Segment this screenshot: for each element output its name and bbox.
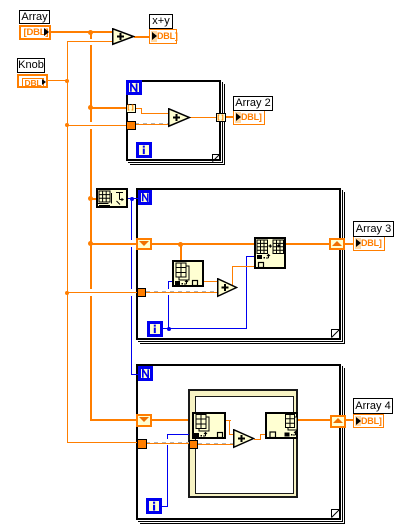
wire: blue N trunk [131, 199, 132, 375]
for loop 1 border [130, 84, 225, 165]
add function 3 (loop2) [217, 278, 238, 298]
loop1 left index tunnel [126, 104, 136, 113]
wire: elbow riser loop3 left [229, 420, 230, 434]
wire: blue riser to replace node loop2 [246, 256, 247, 329]
loop2 N terminal [138, 190, 153, 205]
Array control terminal [19, 25, 51, 40]
wire: loop1 right tunnel to Array 2 [225, 116, 234, 118]
wire: Array terminal to add1 [51, 31, 112, 33]
wire: add2 out top run [232, 266, 255, 267]
junction on array trunk at loop2 branch [88, 241, 93, 246]
loop2 up tunnel [329, 238, 345, 250]
wire: index node out elbow loop3 [226, 420, 231, 421]
wire: knob to add1 lower input [67, 41, 113, 42]
wire: loop1 tunnel to add2 upper [135, 108, 142, 109]
wire crossing gap at array trunk and knob-to-add wire [89, 39, 93, 46]
wire: knob vertical trunk [67, 41, 68, 443]
loop1 scalar tunnel [126, 121, 136, 130]
loop2 down tunnel [136, 238, 152, 250]
wire: knob to loop3 scalar tunnel [67, 442, 138, 443]
add function 1 (top) [112, 28, 135, 46]
loop1 right index tunnel [216, 113, 226, 122]
Array label [19, 10, 50, 24]
for loop 2 border [140, 192, 345, 344]
x+y label [149, 14, 173, 29]
loop2 scalar tunnel [137, 288, 146, 297]
x+y indicator terminal [149, 29, 177, 44]
junction on loop2 array wire at index array branch [178, 242, 183, 247]
for loop 3 border [140, 368, 345, 524]
replace array element node (loop3 right) [265, 412, 298, 439]
for loop 2 folded corner [331, 329, 340, 338]
wire crossing gap at array trunk and loop1 scalar wire [89, 122, 93, 129]
index array node (loop2) [172, 260, 204, 287]
wire: trunk to loop1 index tunnel [91, 107, 127, 109]
wire: blue i riser loop3 [167, 434, 168, 507]
junction on knob trunk at loop2 branch [65, 291, 69, 295]
Array 2 indicator terminal [233, 110, 265, 125]
wire: replace node to loop2 up tunnel [286, 243, 329, 245]
Array 4 indicator terminal [353, 414, 384, 428]
junction on knob trunk at loop1 branch [65, 123, 69, 127]
wire: replace node to loop3 up tunnel [298, 419, 330, 421]
loop2 i terminal [147, 321, 163, 337]
loop3 N terminal [138, 366, 153, 381]
wire: array size to loop2 N (blue) [128, 198, 138, 199]
wire: blue i riser loop2 [168, 281, 169, 329]
wire: loop3 dashed scalar a [146, 443, 189, 444]
wire: trunk to loop3 down tunnel [90, 419, 137, 421]
Array 4 label [353, 398, 393, 414]
junction on knob wire at terminal branch [65, 79, 69, 83]
junction on loop2 blue iteration wire [167, 327, 171, 331]
inner frame scalar tunnel [189, 440, 198, 449]
wire: loop3 dashed scalar b [198, 444, 234, 445]
junction on array wire at add1 branch [88, 30, 93, 35]
array size node [96, 188, 128, 208]
wire: add1 to x+y [134, 36, 149, 38]
wire: add3 output riser loop3 [260, 434, 261, 439]
wire crossing gap at blue trunk and loop2 array wire [131, 240, 133, 247]
wire: drop to index array loop2 [180, 244, 182, 260]
loop3 i terminal [146, 498, 162, 514]
wire: loop3 up tunnel to Array 4 [346, 419, 354, 421]
wire: blue i run loop2 [162, 328, 247, 329]
wire: blue into replace node [246, 256, 255, 257]
wire: loop1 dashed scalar to add2 lower [135, 124, 169, 125]
Knob label [17, 58, 45, 73]
Knob control terminal [17, 74, 48, 89]
wire: blue i stub loop3 [162, 506, 168, 507]
wire crossing gap at loop2 blue riser and dashed scalar wire [168, 289, 170, 296]
add function 4 (loop3) [233, 429, 255, 449]
loop1 i terminal [136, 142, 152, 158]
wire: add2 output to loop1 right tunnel [190, 117, 216, 118]
junction on array trunk at array size branch [88, 196, 93, 201]
wire: blue into loop3 N [131, 374, 139, 375]
wire crossing gap at array trunk and loop2 scalar wire [89, 289, 93, 296]
wire: loop2 dashed scalar [146, 292, 218, 293]
wire: knob to loop1 scalar tunnel [67, 125, 127, 126]
junction on blue count wire [130, 197, 134, 201]
loop3 down tunnel [136, 414, 152, 427]
wire: add2 output riser loop2 [232, 266, 233, 288]
junction on array trunk at loop1 branch [88, 105, 93, 110]
wire: loop1 index jog [141, 108, 142, 114]
wire: add3 out elbow loop3 [254, 439, 261, 440]
for loop 3 folded corner [331, 509, 340, 518]
loop3 up tunnel [330, 415, 346, 428]
wire: knob to loop2 scalar tunnel [67, 292, 137, 293]
wire crossing gap at loop3 blue riser and dashed scalar wire [167, 439, 169, 446]
inner frame structure in loop 3 [188, 389, 298, 498]
loop1 N terminal [126, 80, 142, 95]
wire: index array output loop2 [204, 281, 218, 282]
wire: loop3 tunnel to index node [152, 419, 188, 421]
wire: knob terminal stub [48, 80, 68, 81]
wire: trunk to array size [91, 198, 97, 200]
for loop 1 folded corner [212, 154, 220, 162]
Array 2 label [233, 96, 273, 111]
wire: blue index input stub loop2 [168, 281, 173, 282]
index array node (loop3 left) [192, 412, 226, 439]
Array 3 indicator terminal [353, 236, 385, 251]
wire: blue index input loop3 [167, 434, 189, 435]
wire: loop2 tunnel to replace node [152, 243, 254, 245]
add function 2 (loop1) [168, 108, 191, 128]
wire: loop2 up tunnel to Array 3 [345, 243, 354, 245]
wire crossing gap at blue trunk and loop2 scalar wire [131, 289, 133, 296]
wire: array vertical trunk [90, 31, 92, 421]
Array 3 label [353, 221, 394, 237]
loop3 scalar tunnel [137, 439, 147, 449]
wire: trunk to loop2 down tunnel [91, 243, 136, 245]
replace array subset node (loop2) [254, 237, 286, 269]
